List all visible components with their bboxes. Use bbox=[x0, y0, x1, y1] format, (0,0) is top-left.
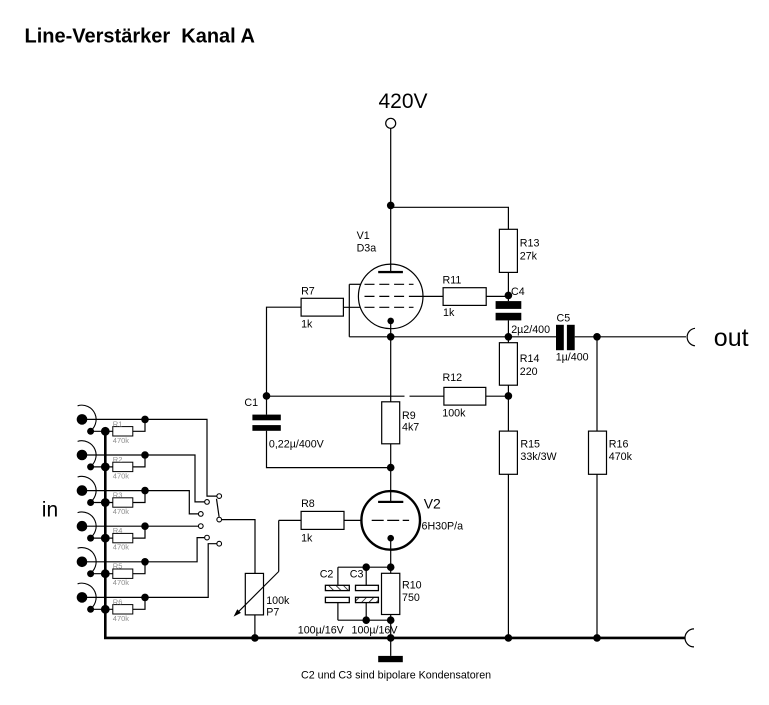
svg-text:R10: R10 bbox=[402, 580, 422, 592]
resistor R8 bbox=[301, 511, 344, 529]
wire J1 ground to R1 bbox=[91, 430, 113, 432]
resistor R10 bbox=[382, 573, 400, 614]
jack J6 shield arc bbox=[78, 583, 97, 610]
node C3 top junction bbox=[362, 563, 370, 571]
jack J1 signal pin bbox=[77, 414, 88, 425]
svg-text:V1: V1 bbox=[357, 230, 370, 242]
svg-text:V2: V2 bbox=[424, 496, 441, 512]
potentiometer P7 body bbox=[245, 573, 263, 615]
tube V1 anode plate bbox=[378, 271, 403, 273]
tube V1 cathode pin bbox=[387, 318, 394, 325]
svg-text:1k: 1k bbox=[301, 533, 313, 545]
svg-text:R2: R2 bbox=[113, 455, 123, 464]
wire C2/C3/R10 top rail bbox=[338, 566, 391, 568]
wire C1 bottom to R9 node bbox=[267, 431, 391, 468]
wire C2 top lead bbox=[337, 567, 339, 585]
resistor R9 bbox=[382, 402, 400, 444]
capacitor C2 plate 2 bbox=[325, 597, 349, 602]
svg-text:470k: 470k bbox=[113, 578, 130, 587]
wire R2 to signal junction bbox=[133, 455, 145, 467]
resistor R7 bbox=[301, 298, 343, 316]
svg-text:Line-Verstärker Kanal A: Line-Verstärker Kanal A bbox=[25, 26, 255, 48]
wire R15 bottom to rail bbox=[507, 474, 509, 638]
node R14/R12/R15 junction bbox=[505, 392, 513, 400]
resistor R11 bbox=[443, 288, 486, 306]
switch S1 wiper contact bbox=[217, 517, 222, 522]
svg-text:100k: 100k bbox=[442, 408, 466, 420]
svg-text:R12: R12 bbox=[443, 372, 463, 384]
svg-text:R11: R11 bbox=[443, 275, 462, 287]
switch S1 contact 5 bbox=[205, 535, 210, 540]
svg-text:27k: 27k bbox=[520, 251, 538, 263]
capacitor C4 plate 2 bbox=[496, 313, 522, 321]
svg-text:100k: 100k bbox=[266, 595, 290, 607]
wire J5 signal to switch contact bbox=[87, 538, 204, 562]
jack J3 shield arc bbox=[78, 476, 97, 503]
capacitor C5 plate 2 bbox=[567, 325, 575, 350]
switch S1 contact 3 bbox=[198, 512, 203, 517]
wire J2 ground to R2 bbox=[91, 466, 113, 468]
node P7/rail junction bbox=[251, 634, 259, 642]
node J5 bus junction bbox=[101, 569, 110, 578]
wire ground rail bbox=[104, 637, 685, 640]
resistor R2 bbox=[113, 462, 133, 471]
wire J4 ground to R4 bbox=[91, 537, 113, 539]
wire R13 bottom to C4 node bbox=[507, 272, 509, 301]
svg-text:420V: 420V bbox=[379, 90, 428, 113]
wire out node to R16 bbox=[596, 337, 598, 431]
wire R8 left to pot wiper line bbox=[279, 519, 301, 521]
svg-text:in: in bbox=[42, 499, 58, 522]
wire P7 wiper to R8 bbox=[278, 520, 280, 571]
node J2 bus junction bbox=[101, 463, 110, 472]
node C1 top junction bbox=[263, 392, 271, 400]
node B+ branch junction bbox=[387, 202, 395, 210]
svg-text:R5: R5 bbox=[113, 562, 123, 571]
capacitor C3 plate 2 hatched bbox=[356, 597, 379, 602]
svg-text:33k/3W: 33k/3W bbox=[520, 451, 557, 463]
jack J2 signal pin bbox=[77, 450, 88, 461]
ground symbol bar bbox=[378, 656, 403, 662]
svg-text:R1: R1 bbox=[113, 419, 123, 428]
resistor R14 bbox=[499, 343, 517, 386]
resistor R15 bbox=[499, 431, 517, 474]
svg-text:R4: R4 bbox=[113, 526, 123, 535]
wire J5 ground to R5 bbox=[91, 573, 113, 575]
switch S1 contact 6 bbox=[217, 541, 222, 546]
switch S1 wiper arm bbox=[217, 499, 220, 517]
wire R5 to signal junction bbox=[133, 562, 145, 574]
node J5 signal/R5 junction bbox=[141, 558, 149, 566]
wire C4 bottom stub bbox=[507, 320, 509, 336]
terminal ground return bbox=[685, 629, 694, 647]
resistor R12 bbox=[444, 387, 486, 405]
wire g3-cathode tie vertical bbox=[348, 284, 350, 337]
wire R14 bottom to R15 bbox=[507, 385, 509, 431]
wire J6 ground to R6 bbox=[91, 608, 113, 610]
tube V2 anode plate bbox=[378, 501, 403, 503]
svg-text:R13: R13 bbox=[520, 238, 540, 250]
node ground-symbol junction bbox=[387, 634, 395, 642]
resistor R13 bbox=[499, 229, 517, 272]
jack J3 signal pin bbox=[77, 485, 88, 496]
wire J1 signal to switch contact bbox=[87, 419, 217, 496]
jack J6 ground pin bbox=[87, 606, 94, 613]
jack J4 shield arc bbox=[78, 512, 97, 539]
switch S1 contact 2 bbox=[205, 500, 210, 505]
wire S1 wiper to P7 bbox=[222, 520, 255, 574]
svg-text:470k: 470k bbox=[609, 451, 633, 463]
wire R8 right to V2 grid bbox=[344, 519, 362, 521]
node J4 bus junction bbox=[101, 534, 110, 543]
tube V1 grid g2 dashed bbox=[365, 295, 405, 297]
svg-text:R16: R16 bbox=[609, 439, 629, 451]
wire C5 to out terminal bbox=[575, 336, 686, 338]
jack J4 signal pin bbox=[77, 521, 88, 532]
wire J6 signal to switch contact bbox=[87, 544, 217, 598]
wire R7 right to V1 g1 bbox=[343, 306, 360, 308]
tube V2 envelope bbox=[361, 491, 420, 550]
node J3 bus junction bbox=[101, 498, 110, 507]
wire R10 bottom to rail bbox=[390, 615, 392, 638]
wire V1 g2 to R11 bbox=[409, 295, 443, 297]
node R10 top junction bbox=[387, 563, 395, 571]
svg-text:C2 und C3 sind bipolare Konden: C2 und C3 sind bipolare Kondensatoren bbox=[301, 670, 491, 682]
wire R4 to signal junction bbox=[133, 526, 145, 538]
node J6 signal/R6 junction bbox=[141, 594, 149, 602]
terminal 420V bbox=[386, 118, 396, 128]
wire R1 to signal junction bbox=[133, 419, 145, 431]
svg-text:4k7: 4k7 bbox=[402, 422, 419, 434]
svg-text:470k: 470k bbox=[113, 543, 130, 552]
wire C2 bottom lead bbox=[337, 603, 339, 621]
svg-text:C5: C5 bbox=[557, 312, 571, 324]
node R11/R13/C4 junction bbox=[505, 292, 513, 300]
wire C3 bottom lead bbox=[365, 603, 367, 621]
tube V2 grid dashed bbox=[372, 519, 409, 521]
node out/R16 junction bbox=[593, 333, 601, 341]
wire R16 bottom to rail bbox=[596, 474, 598, 638]
svg-text:C3: C3 bbox=[350, 569, 364, 581]
svg-text:750: 750 bbox=[402, 592, 420, 604]
tube V1 grid g3 dashed bbox=[365, 283, 414, 285]
wire R12 to R14 node bbox=[486, 395, 509, 397]
wire V2 cathode lead bbox=[390, 538, 392, 567]
resistor R5 bbox=[113, 569, 133, 578]
node R9/C1/V2 junction bbox=[387, 464, 395, 472]
jack J5 signal pin bbox=[77, 557, 88, 568]
tube V2 cathode pin bbox=[387, 535, 394, 542]
node J2 signal/R2 junction bbox=[141, 451, 149, 459]
svg-text:R9: R9 bbox=[402, 410, 416, 422]
node C3 bottom junction bbox=[362, 616, 370, 624]
switch S1 contact 1 bbox=[217, 494, 222, 499]
capacitor C2 plate 1 hatched bbox=[325, 585, 349, 590]
jack J1 shield arc bbox=[78, 405, 97, 432]
svg-text:2µ2/400: 2µ2/400 bbox=[511, 324, 550, 336]
wire C2/C3/R10 bottom rail bbox=[338, 619, 391, 621]
wire R3 to signal junction bbox=[133, 491, 145, 503]
wire cathode node to R9 bbox=[390, 337, 392, 402]
jack J2 shield arc bbox=[78, 441, 97, 468]
jack J5 shield arc bbox=[78, 548, 97, 575]
wire g3 stub bbox=[349, 283, 360, 285]
wire P7 bottom to rail bbox=[254, 615, 256, 638]
node cathode junction bbox=[387, 333, 395, 341]
wire R7 left to C1 node bbox=[267, 307, 302, 396]
jack J2 ground pin bbox=[87, 463, 94, 470]
svg-text:R7: R7 bbox=[301, 286, 315, 298]
svg-text:P7: P7 bbox=[266, 607, 279, 619]
wire B+ vertical to V1 anode bbox=[390, 128, 392, 272]
resistor R6 bbox=[113, 605, 133, 614]
node J6 bus junction bbox=[101, 605, 110, 614]
svg-text:100µ/16V: 100µ/16V bbox=[298, 624, 345, 636]
wire R11 to C4 node bbox=[486, 295, 508, 297]
svg-text:1k: 1k bbox=[443, 307, 455, 319]
svg-text:C2: C2 bbox=[320, 569, 334, 581]
wire J2 signal to switch contact bbox=[87, 455, 204, 502]
node C4/R14 junction bbox=[505, 333, 513, 341]
svg-text:470k: 470k bbox=[113, 507, 130, 516]
wire ground symbol lead bbox=[390, 638, 392, 656]
wire R6 to signal junction bbox=[133, 597, 145, 609]
wire V1 cathode net horizontal bbox=[349, 336, 556, 338]
svg-text:1k: 1k bbox=[301, 319, 313, 331]
jack J4 ground pin bbox=[87, 535, 94, 542]
wire V1 cathode lead bbox=[390, 321, 392, 337]
jack J3 ground pin bbox=[87, 499, 94, 506]
tube V1 envelope bbox=[358, 264, 423, 329]
svg-text:470k: 470k bbox=[113, 471, 130, 480]
capacitor C5 plate 1 bbox=[556, 325, 564, 350]
tube V1 grid g1 dashed bbox=[365, 306, 414, 308]
node R15/rail junction bbox=[505, 634, 513, 642]
resistor R4 bbox=[113, 533, 133, 542]
svg-text:R14: R14 bbox=[520, 353, 540, 365]
svg-text:C4: C4 bbox=[511, 286, 525, 298]
wire R9 bottom to V2 anode node bbox=[390, 444, 392, 468]
svg-text:R15: R15 bbox=[520, 439, 540, 451]
svg-text:R8: R8 bbox=[301, 498, 315, 510]
svg-text:1µ/400: 1µ/400 bbox=[556, 351, 589, 363]
svg-text:470k: 470k bbox=[113, 614, 130, 623]
node J1 bus junction bbox=[101, 427, 110, 436]
wire J3 ground to R3 bbox=[91, 502, 113, 504]
switch S1 contact 4 bbox=[198, 524, 203, 529]
capacitor C1 plate 2 bbox=[252, 425, 280, 431]
node J1 signal/R1 junction bbox=[141, 416, 149, 424]
svg-text:R6: R6 bbox=[113, 597, 123, 606]
capacitor C4 plate 1 bbox=[496, 301, 522, 309]
wire R14 top stub bbox=[507, 337, 509, 343]
wire C1 node to R12 (right segment) bbox=[410, 395, 444, 397]
wire V2 anode lead bbox=[390, 468, 392, 501]
terminal out bbox=[687, 328, 695, 346]
wire C1 top stub bbox=[266, 396, 268, 415]
jack J1 ground pin bbox=[87, 428, 94, 435]
node R10 bottom junction bbox=[387, 616, 395, 624]
wire R10 top stub bbox=[390, 567, 392, 573]
resistor R3 bbox=[113, 498, 133, 507]
node J4 signal/R4 junction bbox=[141, 522, 149, 530]
svg-text:out: out bbox=[714, 324, 749, 352]
svg-text:470k: 470k bbox=[113, 436, 130, 445]
wire C1 node to R12 (left segment) bbox=[267, 395, 405, 397]
node J3 signal/R3 junction bbox=[141, 487, 149, 495]
svg-text:R3: R3 bbox=[113, 491, 123, 500]
wire J4 signal to switch contact bbox=[87, 525, 198, 527]
capacitor C1 plate 1 bbox=[252, 415, 280, 421]
wire C3 top lead bbox=[365, 567, 367, 585]
svg-text:C1: C1 bbox=[244, 397, 258, 409]
wire input ground bus bbox=[104, 431, 107, 638]
resistor R16 bbox=[589, 431, 607, 474]
resistor R1 bbox=[113, 427, 133, 436]
wire J3 signal to switch contact bbox=[87, 491, 198, 514]
svg-text:220: 220 bbox=[520, 366, 538, 378]
jack J5 ground pin bbox=[87, 570, 94, 577]
svg-text:0,22µ/400V: 0,22µ/400V bbox=[269, 439, 325, 451]
potentiometer P7 wiper arrow bbox=[237, 572, 279, 614]
capacitor C3 plate 1 bbox=[356, 585, 379, 590]
svg-text:D3a: D3a bbox=[357, 243, 377, 255]
wire B+ branch to R13 bbox=[391, 207, 509, 229]
svg-text:6H30P/a: 6H30P/a bbox=[422, 521, 464, 533]
node R16/rail junction bbox=[593, 634, 601, 642]
jack J6 signal pin bbox=[77, 592, 88, 603]
